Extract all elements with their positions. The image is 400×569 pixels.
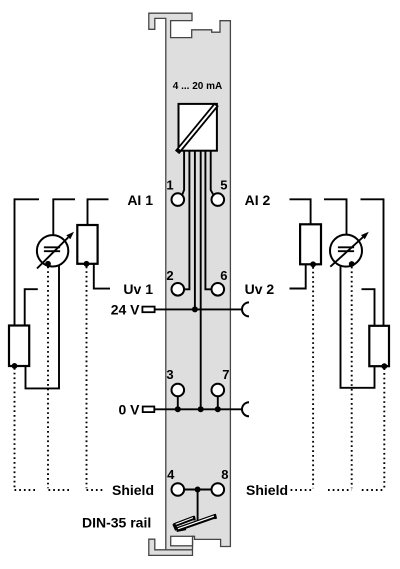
wire w1 (converter to terminal 1) — [182, 151, 184, 195]
junction on 24V bus — [192, 306, 198, 312]
junction 0V bus at w4 — [198, 406, 204, 412]
left Uv1-level open stub — [25, 289, 38, 325]
wire w4 (converter to 0V bus) — [200, 151, 202, 410]
24V flag connector — [142, 307, 154, 313]
bottom housing notch — [171, 536, 193, 546]
shield wire from T2L (dotted) — [15, 368, 37, 490]
wire w6 (converter to terminal 5) — [211, 151, 214, 195]
svg-text:8: 8 — [221, 467, 228, 482]
wire shield bus to DIN rail — [197, 490, 199, 521]
transmitter T2L (far left 2-wire) — [9, 326, 29, 367]
wire S1R top — [346, 199, 348, 234]
A/D converter U1 — [177, 104, 217, 152]
shield wire from S1L (dotted) — [48, 267, 72, 491]
junction T2R bottom — [381, 363, 387, 369]
svg-text:Uv 1: Uv 1 — [123, 281, 153, 297]
shield wire from T2R (dotted) — [362, 368, 385, 490]
svg-text:4: 4 — [167, 467, 175, 482]
shield wire from S1R (dotted) — [328, 267, 352, 490]
right Uv2-level open stub — [362, 289, 375, 326]
svg-text:0 V: 0 V — [118, 401, 140, 417]
terminal 5 — [212, 193, 225, 206]
wire T1L top to AI 1 — [88, 199, 109, 225]
terminal 1 — [172, 193, 185, 206]
module body (bus terminal housing silhouette) — [149, 13, 231, 555]
terminal 7 stub to 0V bus — [217, 396, 219, 409]
svg-text:Shield: Shield — [112, 482, 154, 498]
wire stub to left transmitter T2L top — [14, 198, 16, 325]
junction T1R bottom — [310, 261, 316, 267]
terminal 8 — [212, 483, 225, 496]
wire T1L bottom to Uv1 stub — [94, 264, 110, 289]
0V flag connector — [143, 407, 155, 413]
wire S1L top — [52, 199, 54, 235]
svg-text:5: 5 — [220, 177, 227, 192]
S1R equal bars — [338, 247, 354, 251]
wire w3 (converter to 24V bus) — [194, 151, 196, 310]
junction S1R bottom — [349, 261, 355, 267]
terminal 4 — [172, 483, 185, 496]
S1L equal bars — [44, 247, 60, 251]
S1L AI1-level open stub — [52, 198, 75, 200]
junction 0V bus at terminal 3 — [175, 406, 181, 412]
terminal 3 stub to 0V bus — [177, 396, 179, 409]
wire T1R bottom to Uv2 stub — [290, 264, 306, 288]
terminal 2 — [172, 283, 185, 296]
transmitter T1R (2-wire, near module) — [300, 224, 321, 264]
transmitter T2R (far right 2-wire) — [369, 326, 389, 366]
wire w5 (converter to terminal 6) — [205, 151, 211, 290]
DIN rail contact icon — [174, 514, 216, 531]
shield wire from T1R (dotted) — [291, 267, 314, 490]
right AI2-level open stub — [361, 198, 384, 200]
svg-text:2: 2 — [166, 268, 173, 283]
0V continuation socket arc — [242, 402, 249, 416]
junction T1L bottom — [84, 261, 90, 267]
adjustable current source S1L circle — [37, 235, 68, 266]
junction S1L bottom — [45, 261, 51, 267]
S1R AI2-level open stub — [324, 198, 347, 200]
terminal 3 — [172, 384, 185, 397]
24V continuation socket arc — [242, 302, 249, 316]
24V bus line — [155, 308, 242, 310]
adjustable current source S1R circle — [330, 235, 362, 267]
junction on shield bus — [195, 487, 201, 493]
transmitter T1L (2-wire, near module) — [77, 225, 97, 264]
svg-text:4 ... 20 mA: 4 ... 20 mA — [173, 81, 222, 92]
junction 0V bus at terminal 7 — [215, 406, 221, 412]
wire T1R top to AI 2 — [290, 199, 311, 224]
svg-text:7: 7 — [222, 367, 229, 382]
svg-text:AI 1: AI 1 — [127, 192, 153, 208]
svg-text:1: 1 — [166, 177, 173, 192]
svg-text:6: 6 — [220, 268, 227, 283]
svg-text:DIN-35 rail: DIN-35 rail — [82, 515, 151, 531]
S1R adjustment arrow — [330, 237, 363, 267]
0V bus line — [155, 408, 243, 410]
junction T2L bottom — [12, 363, 18, 369]
svg-text:Uv 2: Uv 2 — [245, 281, 275, 297]
housing base internal edge — [166, 549, 193, 551]
S1L adjustment arrow — [37, 237, 68, 268]
svg-text:AI 2: AI 2 — [245, 192, 271, 208]
svg-text:Shield: Shield — [246, 482, 288, 498]
svg-text:3: 3 — [166, 367, 173, 382]
shield wire from T1L (dotted) — [87, 267, 106, 491]
svg-text:24 V: 24 V — [111, 302, 140, 318]
wire stub to right transmitter T2R top — [383, 198, 385, 325]
wire T2L bottom to source S1L bottom — [26, 265, 60, 388]
terminal 6 — [212, 283, 225, 296]
wire T2R bottom to source S1R bottom — [341, 266, 375, 388]
left AI1-level open stub — [15, 198, 40, 200]
wire w2 (converter to terminal 2) — [184, 151, 190, 290]
shield bus between terminals 4 and 8 — [184, 489, 211, 491]
terminal 7 — [212, 384, 225, 397]
